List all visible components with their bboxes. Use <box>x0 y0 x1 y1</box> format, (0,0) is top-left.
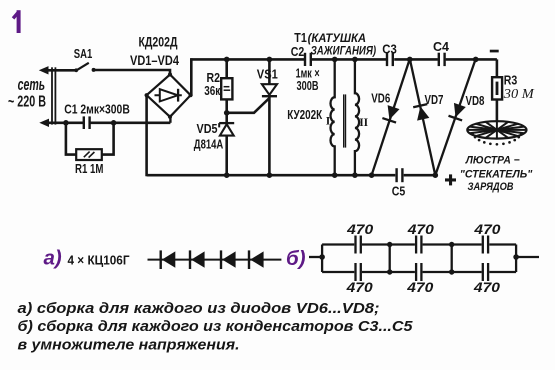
svg-text:С5: С5 <box>392 184 406 198</box>
svg-text:300В: 300В <box>297 79 319 93</box>
svg-text:"СТЕКАТЕЛЬ": "СТЕКАТЕЛЬ" <box>460 168 533 180</box>
svg-text:С1 2мк×300В: С1 2мк×300В <box>64 102 130 116</box>
svg-text:КД202Д: КД202Д <box>139 35 178 50</box>
svg-text:470: 470 <box>406 279 433 295</box>
svg-text:VD6: VD6 <box>371 91 390 105</box>
svg-text:сеть: сеть <box>18 75 45 94</box>
svg-text:ЗАЖИГАНИЯ): ЗАЖИГАНИЯ) <box>311 45 377 58</box>
svg-text:R1 1М: R1 1М <box>75 161 104 176</box>
svg-text:470: 470 <box>346 279 373 295</box>
svg-text:VD8: VD8 <box>466 94 485 108</box>
svg-text:ЛЮСТРА −: ЛЮСТРА − <box>465 155 520 167</box>
svg-text:VD1–VD4: VD1–VD4 <box>130 53 179 68</box>
svg-text:470: 470 <box>346 221 373 237</box>
svg-text:б): б) <box>286 247 306 270</box>
svg-text:R3: R3 <box>504 73 518 87</box>
svg-text:36к: 36к <box>204 84 221 98</box>
svg-text:30 М: 30 М <box>503 87 535 102</box>
svg-text:VS1: VS1 <box>257 68 278 82</box>
svg-text:I: I <box>326 115 331 127</box>
svg-text:470: 470 <box>473 221 500 237</box>
svg-text:VD7: VD7 <box>425 93 444 107</box>
svg-text:С3: С3 <box>382 43 397 57</box>
svg-text:Т1: Т1 <box>294 30 307 45</box>
svg-text:(КАТУШКА: (КАТУШКА <box>308 32 367 45</box>
svg-text:470: 470 <box>407 221 434 237</box>
svg-text:II: II <box>359 117 368 129</box>
svg-text:а): а) <box>44 246 62 269</box>
svg-text:VD5: VD5 <box>197 122 218 136</box>
svg-text:~ 220 В: ~ 220 В <box>8 93 46 110</box>
svg-text:ЗАРЯДОВ: ЗАРЯДОВ <box>468 181 514 193</box>
svg-text:в умножителе напряжения.: в умножителе напряжения. <box>18 337 240 354</box>
svg-text:С4: С4 <box>433 40 449 54</box>
svg-text:470: 470 <box>473 279 500 295</box>
svg-text:б) сборка для каждого из конде: б) сборка для каждого из конденсаторов С… <box>18 318 414 335</box>
svg-text:С2: С2 <box>291 45 305 59</box>
svg-text:4 × КЦ106Г: 4 × КЦ106Г <box>68 254 130 268</box>
svg-text:КУ202К: КУ202К <box>287 108 322 122</box>
svg-text:Д814А: Д814А <box>194 138 224 152</box>
svg-text:а) сборка для каждого из диодо: а) сборка для каждого из диодов VD6...VD… <box>18 300 380 317</box>
svg-text:SA1: SA1 <box>74 46 93 61</box>
